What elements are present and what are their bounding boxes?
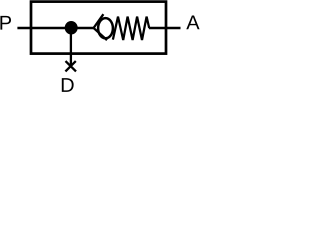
port label P xyxy=(0,16,11,30)
wire: port A line from spring to A xyxy=(149,27,181,29)
wire: drain line down from junction xyxy=(70,28,72,66)
drain plug X symbol xyxy=(66,61,77,71)
node: junction dot xyxy=(65,21,78,34)
check valve ball xyxy=(98,18,113,38)
spring xyxy=(113,17,149,40)
valve body box xyxy=(31,2,166,54)
check valve seat wedge xyxy=(94,14,107,40)
wire: port P line from P to seat apex xyxy=(17,27,93,29)
port label A xyxy=(186,16,199,30)
port label D xyxy=(62,78,74,92)
